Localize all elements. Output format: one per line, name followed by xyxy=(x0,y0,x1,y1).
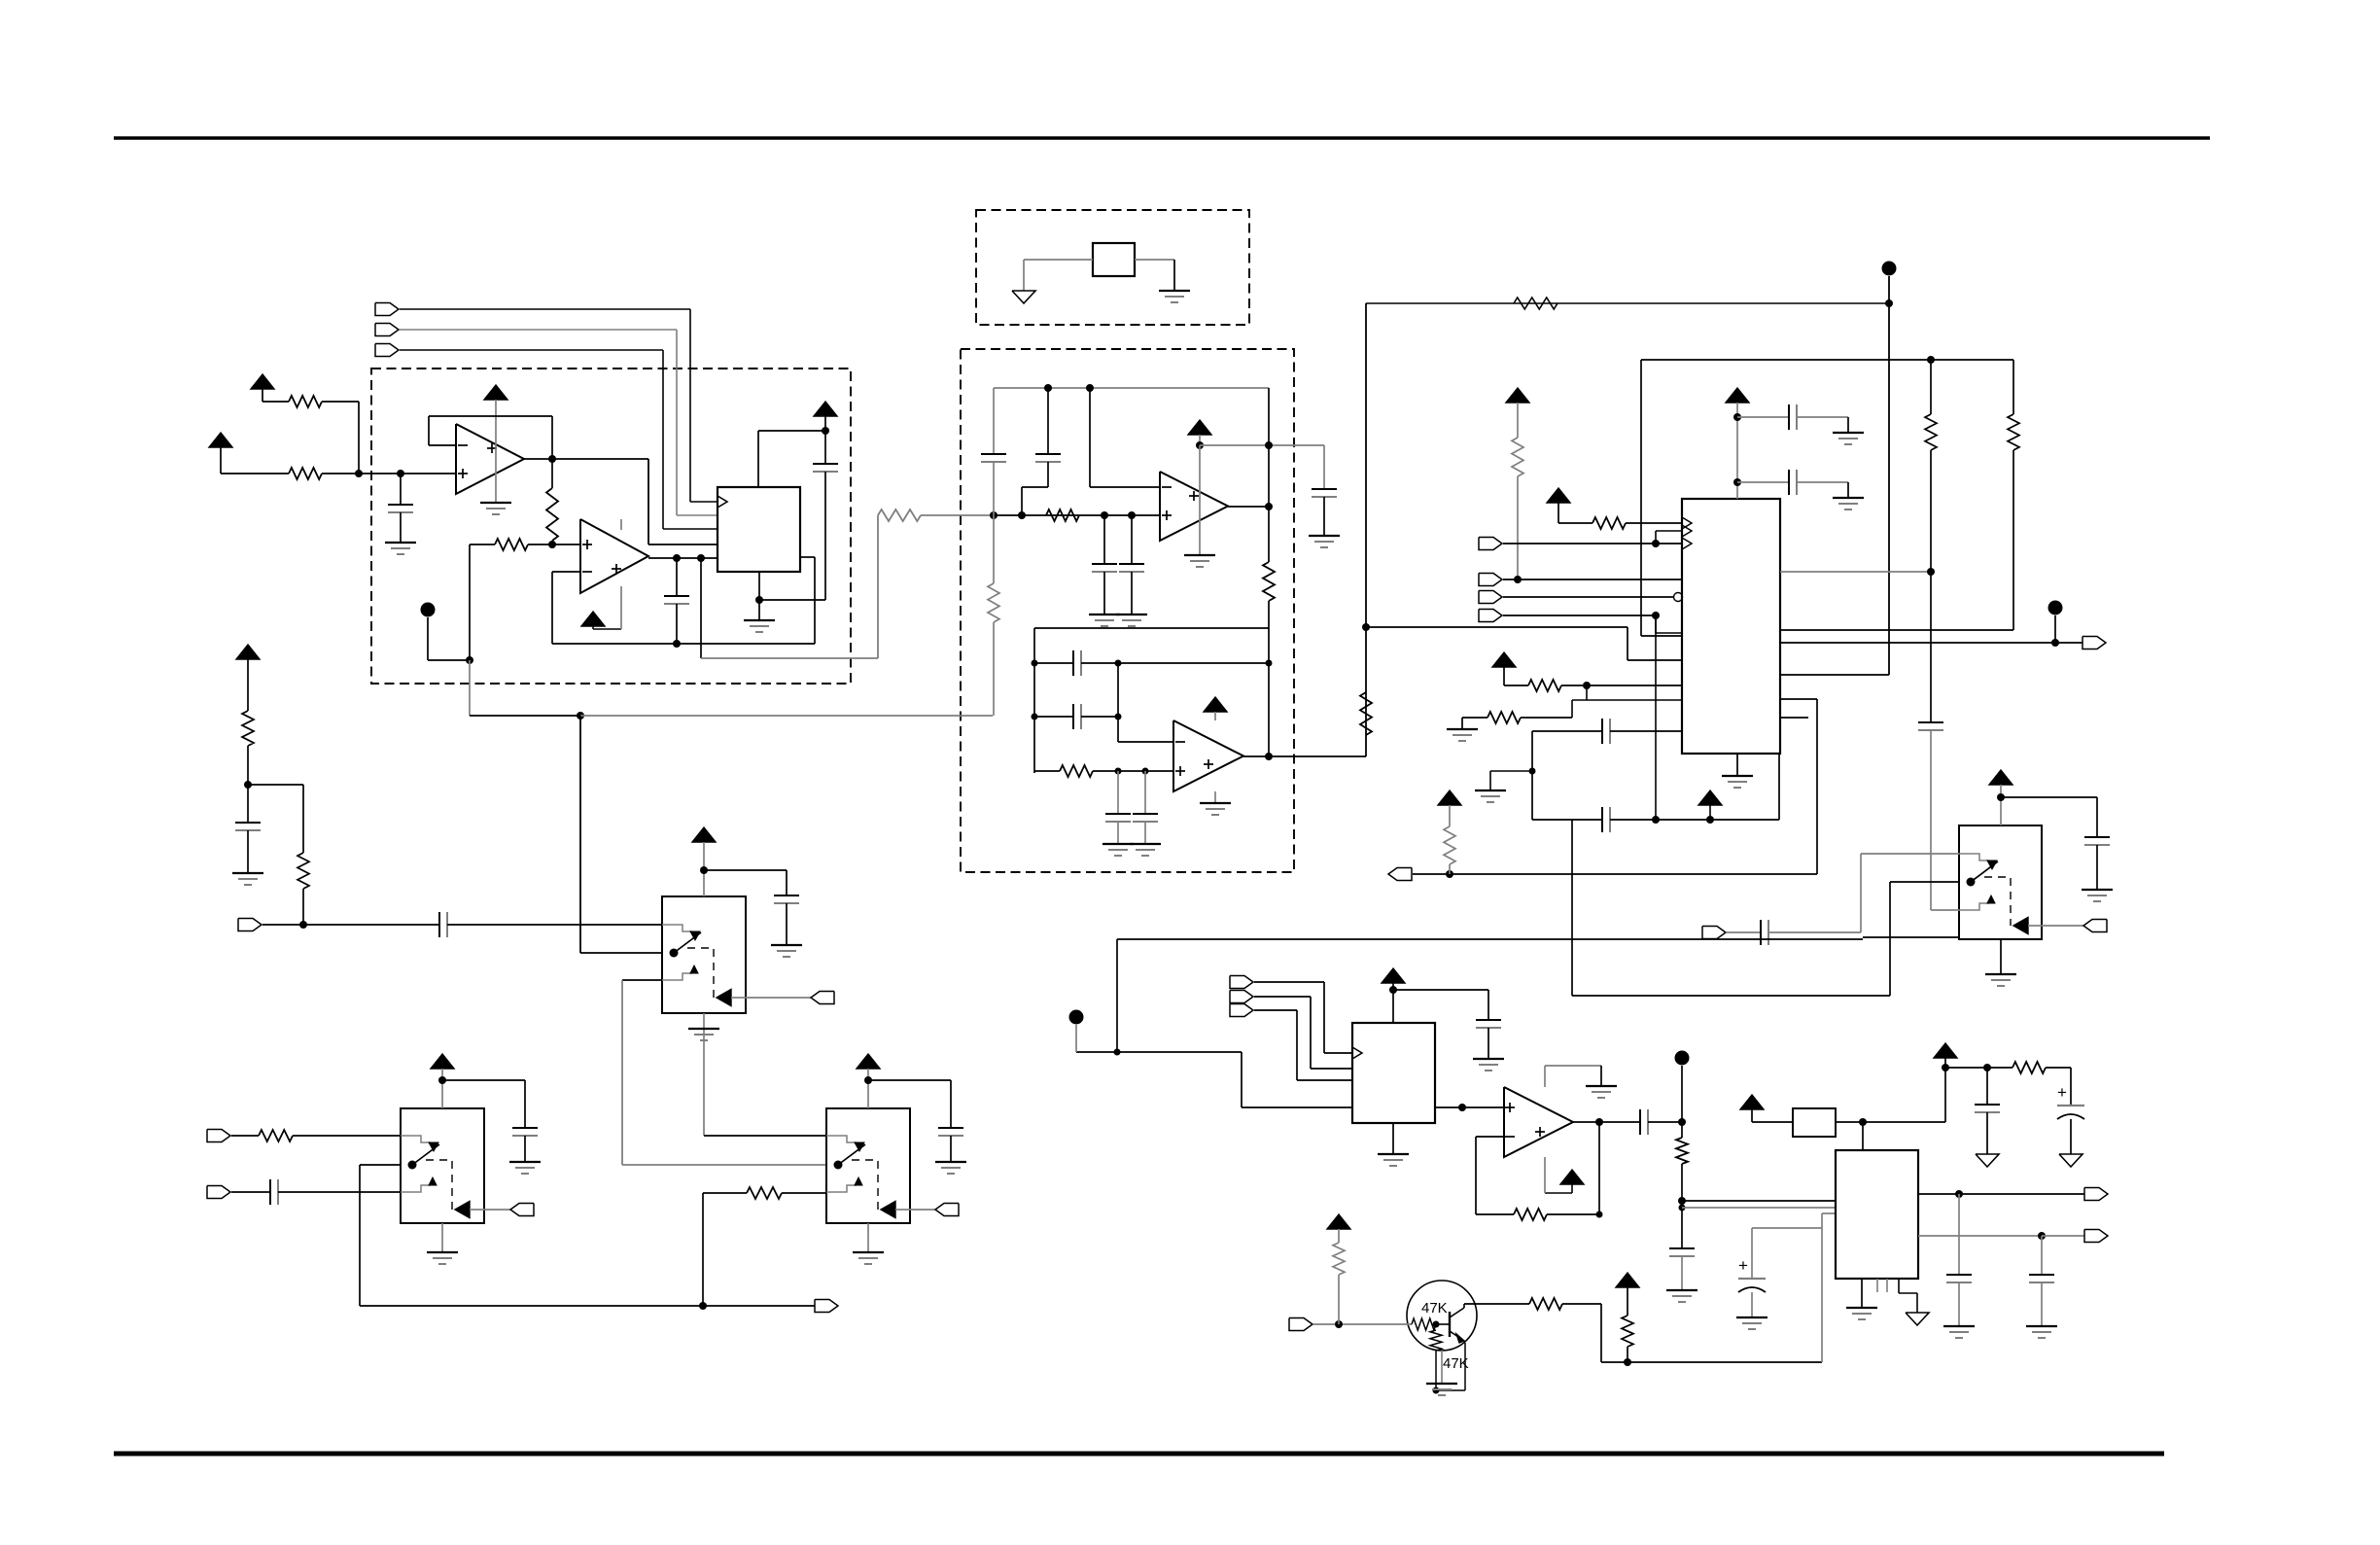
svg-text:+: + xyxy=(1738,1256,1748,1275)
svg-text:+: + xyxy=(2057,1083,2067,1102)
svg-text:47K: 47K xyxy=(1421,1300,1448,1317)
